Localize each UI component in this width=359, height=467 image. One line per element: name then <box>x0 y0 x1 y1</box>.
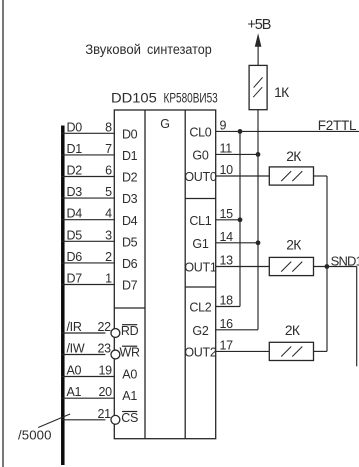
svg-text:OUT1: OUT1 <box>184 261 216 275</box>
svg-text:/IR: /IR <box>67 320 82 334</box>
svg-text:14: 14 <box>220 230 234 244</box>
svg-text:D0: D0 <box>67 120 83 134</box>
svg-text:21: 21 <box>97 407 111 421</box>
svg-text:D3: D3 <box>122 192 138 206</box>
svg-text:10: 10 <box>220 163 234 177</box>
svg-text:11: 11 <box>220 141 233 155</box>
svg-text:9: 9 <box>220 118 227 132</box>
svg-text:A0: A0 <box>67 364 82 378</box>
svg-text:OUT2: OUT2 <box>184 346 216 360</box>
svg-text:2К: 2К <box>286 149 301 164</box>
svg-text:A1: A1 <box>67 385 82 399</box>
svg-text:D1: D1 <box>122 149 138 163</box>
svg-text:D7: D7 <box>67 272 83 286</box>
svg-text:A0: A0 <box>122 367 137 381</box>
svg-text:/5000: /5000 <box>18 427 52 442</box>
svg-text:22: 22 <box>97 320 111 334</box>
svg-text:6: 6 <box>105 164 112 178</box>
svg-text:D4: D4 <box>122 214 138 228</box>
svg-text:2К: 2К <box>285 323 300 338</box>
svg-text:G1: G1 <box>192 237 208 251</box>
svg-text:1: 1 <box>105 272 112 286</box>
svg-text:5: 5 <box>105 185 112 199</box>
svg-text:D0: D0 <box>122 127 138 141</box>
svg-text:КР580ВИ53: КР580ВИ53 <box>164 90 218 106</box>
svg-text:4: 4 <box>105 207 112 221</box>
svg-text:RD: RD <box>121 324 139 338</box>
svg-text:7: 7 <box>105 142 112 156</box>
svg-text:G0: G0 <box>192 149 208 163</box>
svg-text:DD105: DD105 <box>111 90 157 106</box>
svg-text:1К: 1К <box>274 85 289 100</box>
svg-text:WR: WR <box>120 346 140 360</box>
svg-text:15: 15 <box>220 207 234 221</box>
svg-text:2: 2 <box>105 250 112 264</box>
svg-text:синтезатор: синтезатор <box>147 42 212 57</box>
svg-text:D5: D5 <box>122 235 138 249</box>
svg-text:Звуковой: Звуковой <box>85 42 141 57</box>
svg-text:D7: D7 <box>122 279 138 293</box>
svg-text:OUT0: OUT0 <box>184 170 216 184</box>
svg-text:19: 19 <box>98 364 112 378</box>
svg-text:CL1: CL1 <box>189 214 211 228</box>
svg-text:20: 20 <box>98 385 112 399</box>
svg-text:/IW: /IW <box>67 342 85 356</box>
svg-text:CL2: CL2 <box>189 301 211 315</box>
svg-text:2К: 2К <box>286 238 301 253</box>
svg-text:G: G <box>160 117 170 131</box>
svg-text:A1: A1 <box>122 389 137 403</box>
svg-text:13: 13 <box>220 254 234 268</box>
svg-text:D2: D2 <box>67 164 83 178</box>
svg-text:18: 18 <box>220 294 234 308</box>
svg-text:D6: D6 <box>122 257 138 271</box>
svg-text:23: 23 <box>97 342 111 356</box>
svg-text:F2TTL: F2TTL <box>318 118 357 133</box>
svg-text:D4: D4 <box>67 207 83 221</box>
svg-text:CS: CS <box>121 411 138 425</box>
svg-text:D1: D1 <box>67 142 83 156</box>
svg-text:D6: D6 <box>67 250 83 264</box>
svg-text:G2: G2 <box>192 324 208 338</box>
svg-text:D2: D2 <box>122 171 138 185</box>
svg-text:SND1: SND1 <box>331 253 359 268</box>
svg-text:16: 16 <box>220 317 234 331</box>
svg-text:3: 3 <box>105 228 112 242</box>
svg-text:CL0: CL0 <box>189 126 211 140</box>
svg-text:8: 8 <box>105 120 112 134</box>
svg-text:17: 17 <box>220 338 234 352</box>
svg-text:+5В: +5В <box>247 17 270 33</box>
svg-text:D3: D3 <box>67 185 83 199</box>
svg-text:D5: D5 <box>67 228 83 242</box>
